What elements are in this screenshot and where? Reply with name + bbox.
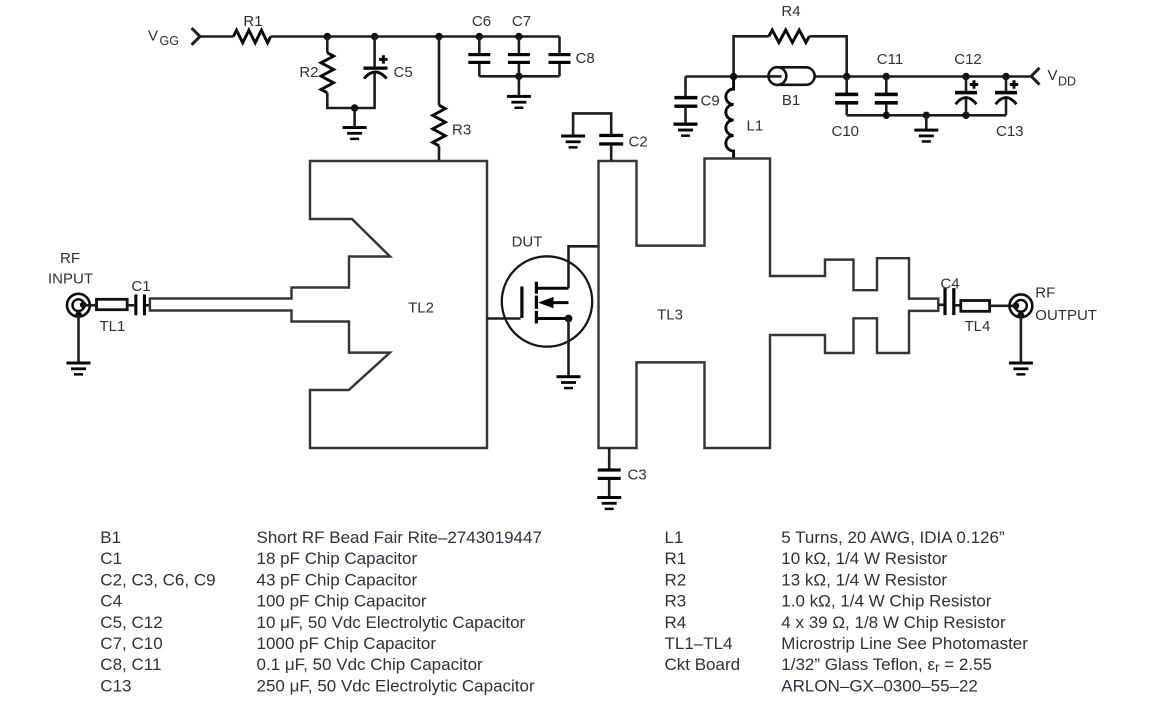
- svg-text:B1: B1: [100, 528, 121, 547]
- svg-text:C4: C4: [940, 276, 959, 293]
- inductor L1: [726, 77, 734, 159]
- resistor R3: [433, 105, 446, 146]
- ground under RF input: [67, 362, 91, 376]
- ground under VDD bus: [914, 129, 938, 143]
- svg-text:R2: R2: [299, 64, 318, 81]
- ground under C3: [597, 496, 621, 510]
- svg-text:R3: R3: [665, 592, 687, 611]
- ground under DUT source: [557, 375, 581, 389]
- svg-text:TL4: TL4: [965, 318, 991, 335]
- wire RF input ground lead: [77, 315, 80, 363]
- node rail at C11: [883, 73, 890, 80]
- node at C5: [371, 33, 378, 40]
- connector VDD chevron: [1031, 68, 1039, 85]
- node at C6: [476, 33, 483, 40]
- microstrip TL2 with input trace: [150, 161, 487, 448]
- svg-text:13 kΩ, 1/4 W Resistor: 13 kΩ, 1/4 W Resistor: [781, 570, 947, 589]
- svg-text:C5, C12: C5, C12: [100, 613, 162, 632]
- microstrip TL4: [961, 301, 990, 312]
- node RF output ground tap: [1018, 312, 1025, 319]
- wire TL3 feed to C4: [938, 303, 943, 306]
- svg-text:1/32” Glass Teflon, εr = 2.55: 1/32” Glass Teflon, εr = 2.55: [781, 655, 992, 675]
- node bus at C12: [962, 112, 969, 119]
- polarity plus C13: [1010, 80, 1018, 88]
- parts list left column: [100, 528, 542, 695]
- wire C9 top lead: [684, 77, 687, 97]
- node L1/R4 junction: [730, 73, 737, 80]
- wire VDD rail right: [812, 75, 1031, 78]
- connector VGG input chevron: [192, 28, 200, 45]
- capacitor C10: [835, 77, 858, 116]
- wire TL2 to gate: [487, 317, 521, 320]
- svg-text:R2: R2: [665, 570, 687, 589]
- capacitor C9: [674, 96, 697, 124]
- svg-text:Short RF Bead Fair Rite–274301: Short RF Bead Fair Rite–2743019447: [257, 528, 542, 547]
- svg-text:R4: R4: [665, 613, 687, 632]
- svg-text:C2: C2: [629, 134, 648, 151]
- node RF input ground tap: [75, 312, 82, 319]
- svg-text:TL1–TL4: TL1–TL4: [665, 634, 733, 653]
- svg-text:10 μF, 50 Vdc Electrolytic Cap: 10 μF, 50 Vdc Electrolytic Capacitor: [257, 613, 526, 632]
- wire jack to TL1: [83, 304, 96, 307]
- node at C7: [515, 33, 522, 40]
- svg-text:1.0 kΩ, 1/4 W Chip Resistor: 1.0 kΩ, 1/4 W Chip Resistor: [781, 592, 992, 611]
- wire rail corner to C8: [558, 37, 561, 54]
- wire R2 bottom to C5 bottom: [327, 73, 374, 108]
- ground under R2/C5: [343, 126, 367, 140]
- svg-text:43 pF Chip Capacitor: 43 pF Chip Capacitor: [257, 570, 418, 589]
- svg-text:5 Turns, 20 AWG, IDIA 0.126”: 5 Turns, 20 AWG, IDIA 0.126”: [781, 528, 1005, 547]
- svg-text:18 pF Chip Capacitor: 18 pF Chip Capacitor: [257, 549, 418, 568]
- svg-text:C8, C11: C8, C11: [100, 655, 161, 674]
- resistor R4: [769, 30, 810, 43]
- svg-text:0.1 μF, 50 Vdc Chip Capacitor: 0.1 μF, 50 Vdc Chip Capacitor: [257, 655, 484, 674]
- svg-text:C13: C13: [100, 676, 131, 695]
- transistor DUT MOSFET: [502, 256, 592, 346]
- capacitor C8: [549, 53, 571, 76]
- node R2/C5 ground junction: [351, 104, 358, 111]
- svg-text:RF: RF: [1035, 285, 1055, 302]
- ground under C9: [674, 123, 698, 137]
- svg-text:C6: C6: [472, 13, 491, 30]
- ground under C7 bus: [507, 95, 531, 109]
- svg-text:R4: R4: [781, 3, 800, 20]
- svg-text:C8: C8: [576, 50, 595, 67]
- svg-text:C10: C10: [832, 123, 860, 140]
- svg-text:DUT: DUT: [512, 234, 543, 251]
- parts list right column: [665, 528, 1029, 695]
- node bus at C11: [883, 112, 890, 119]
- wire ground stub below C7: [518, 76, 521, 96]
- microstrip TL1: [97, 299, 128, 309]
- svg-text:V: V: [148, 28, 158, 45]
- svg-text:C9: C9: [701, 93, 720, 110]
- resistor R1: [233, 30, 270, 43]
- svg-text:C5: C5: [394, 64, 413, 81]
- svg-text:R3: R3: [452, 122, 471, 139]
- node rail at C10/R4: [843, 73, 850, 80]
- svg-text:TL3: TL3: [657, 307, 683, 324]
- connector RF input jack: [67, 294, 90, 317]
- ground under RF output: [1009, 362, 1033, 376]
- capacitor C13 electrolytic: [995, 77, 1017, 116]
- node at R2: [324, 33, 331, 40]
- svg-text:C2, C3, C6, C9: C2, C3, C6, C9: [100, 570, 215, 589]
- wire C3 top lead: [608, 448, 611, 469]
- svg-text:L1: L1: [747, 118, 764, 135]
- polarity plus C5: [379, 55, 387, 63]
- svg-text:C11: C11: [877, 51, 903, 68]
- wire C2 top bend: [573, 113, 611, 135]
- connector RF output jack: [1010, 294, 1033, 317]
- svg-text:C3: C3: [628, 467, 647, 484]
- capacitor C3: [598, 468, 621, 497]
- svg-text:R1: R1: [243, 13, 262, 30]
- capacitor C4: [943, 288, 962, 315]
- wire C5 top lead: [373, 37, 376, 67]
- svg-text:DD: DD: [1058, 75, 1076, 89]
- capacitor C12 electrolytic: [955, 77, 977, 116]
- capacitor C11: [875, 77, 898, 116]
- wire TL4 to jack: [990, 304, 1016, 307]
- capacitor C5 electrolytic: [364, 67, 388, 79]
- node bus at ground: [923, 112, 930, 119]
- capacitor C6: [468, 37, 490, 77]
- node at R3: [435, 33, 442, 40]
- wire R3 top lead: [438, 37, 441, 106]
- svg-text:Microstrip Line See Photomaste: Microstrip Line See Photomaster: [781, 634, 1028, 653]
- svg-text:C12: C12: [954, 51, 982, 68]
- node rail at C12: [962, 73, 969, 80]
- svg-text:4 x 39 Ω, 1/8 W Chip Resistor: 4 x 39 Ω, 1/8 W Chip Resistor: [781, 613, 1006, 632]
- wire drain to TL3: [569, 246, 600, 288]
- wire R2 top lead: [326, 37, 329, 53]
- svg-text:TL2: TL2: [408, 300, 434, 317]
- svg-text:R1: R1: [665, 549, 687, 568]
- node bus at C7: [515, 73, 522, 80]
- svg-text:250 μF, 50 Vdc Electrolytic Ca: 250 μF, 50 Vdc Electrolytic Capacitor: [257, 676, 535, 695]
- svg-text:C1: C1: [131, 278, 150, 295]
- svg-text:C1: C1: [100, 549, 122, 568]
- svg-text:C13: C13: [996, 123, 1024, 140]
- svg-text:TL1: TL1: [100, 318, 126, 335]
- wire gate bias rail: [271, 35, 560, 38]
- wire source to ground: [567, 319, 570, 377]
- svg-text:GG: GG: [160, 34, 179, 48]
- microstrip TL3: [599, 159, 939, 449]
- svg-text:INPUT: INPUT: [48, 271, 93, 288]
- ground left of C2: [561, 135, 585, 149]
- svg-text:RF: RF: [60, 250, 80, 267]
- svg-text:ARLON–GX–0300–55–22: ARLON–GX–0300–55–22: [781, 676, 978, 695]
- ferrite bead B1: [769, 67, 815, 85]
- svg-text:C4: C4: [100, 592, 122, 611]
- capacitor C1: [134, 295, 150, 316]
- capacitor C2: [599, 134, 623, 161]
- svg-text:OUTPUT: OUTPUT: [1035, 307, 1097, 324]
- svg-text:V: V: [1048, 67, 1058, 84]
- svg-text:L1: L1: [665, 528, 684, 547]
- polarity plus C12: [970, 80, 978, 88]
- wire VDD rail left: [686, 75, 770, 78]
- wire C6-C8 bottom bus: [479, 75, 559, 78]
- capacitor C7: [508, 37, 530, 77]
- wire R4 top loop: [734, 36, 769, 76]
- svg-text:1000 pF Chip Capacitor: 1000 pF Chip Capacitor: [257, 634, 437, 653]
- wire R4 right leg: [809, 36, 846, 76]
- svg-text:B1: B1: [782, 92, 800, 109]
- wire ground stub below bus: [925, 115, 928, 129]
- wire R3 to TL2: [438, 146, 441, 161]
- wire VGG to R1: [199, 35, 233, 38]
- node source/substrate: [565, 315, 573, 323]
- svg-text:10 kΩ, 1/4 W Resistor: 10 kΩ, 1/4 W Resistor: [781, 549, 947, 568]
- svg-text:Ckt Board: Ckt Board: [665, 655, 741, 674]
- wire ground stub below R2/C5: [353, 108, 356, 127]
- svg-text:100 pF Chip Capacitor: 100 pF Chip Capacitor: [257, 592, 427, 611]
- wire RF output ground lead: [1020, 315, 1023, 362]
- node rail at C13: [1002, 73, 1009, 80]
- svg-text:C7, C10: C7, C10: [100, 634, 162, 653]
- wire C10-C13 bottom bus: [847, 114, 1006, 117]
- svg-text:C7: C7: [512, 13, 531, 30]
- wire TL1 to C1: [128, 304, 134, 307]
- resistor R2: [321, 53, 334, 93]
